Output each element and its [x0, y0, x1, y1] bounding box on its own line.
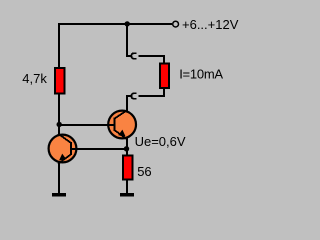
supply terminal circle [173, 21, 179, 27]
wire top rail from left corner to supply terminal [59, 23, 172, 69]
wire lower hook to Q2 collector [127, 96, 132, 112]
connector hook bottom [131, 93, 136, 99]
wire drop from top junction to connector hook [127, 23, 131, 56]
connector hook top [131, 53, 136, 59]
transistor Q1 [49, 134, 78, 164]
wire Q2 emitter down to node [126, 138, 128, 150]
svg-text:56: 56 [137, 164, 151, 179]
wire left rail resistor bottom to Q1 collector [58, 93, 60, 136]
svg-text:I=10mA: I=10mA [179, 67, 223, 82]
ground left [52, 193, 66, 197]
node junction dot left rail / Q2 base [57, 122, 62, 127]
wire resistor I bottom to lower hook [138, 88, 164, 96]
resistor R1 4,7k [55, 68, 64, 93]
wire node to Q1 base [72, 148, 127, 150]
transistor Q2 [107, 110, 136, 140]
wire resistor 56 to ground [126, 179, 128, 194]
ground right [120, 193, 134, 197]
node junction dot top rail [125, 21, 130, 26]
svg-text:Ue=0,6V: Ue=0,6V [135, 134, 186, 149]
wire node to resistor 56 [126, 149, 128, 156]
node junction dot Ue emitter node [124, 146, 129, 151]
resistor 56 [123, 156, 133, 180]
svg-text:+6...+12V: +6...+12V [182, 17, 239, 32]
wire Q2 base from left rail [59, 124, 116, 126]
wire hook to resistor I top [138, 56, 164, 64]
resistor I=10mA load [160, 63, 169, 88]
wire Q1 emitter to ground [58, 162, 60, 194]
svg-text:4,7k: 4,7k [22, 71, 47, 86]
